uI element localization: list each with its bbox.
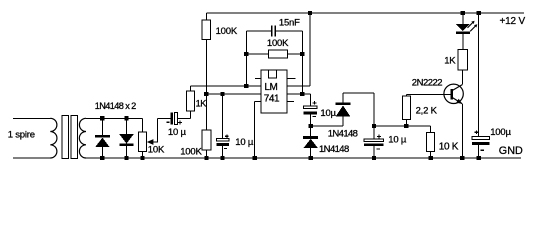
svg-text:1K: 1K <box>444 56 456 67</box>
node diode D2 top <box>124 116 128 120</box>
wire wiper to cap <box>156 118 158 142</box>
node D3 ground <box>309 156 313 160</box>
svg-text:10 µ: 10 µ <box>168 127 187 138</box>
diode D3 1N4148 <box>310 126 312 136</box>
wire primary bottom <box>13 157 50 159</box>
wire non-inverting input <box>206 93 261 95</box>
resistor R4 100K body <box>246 53 268 55</box>
node feedback right <box>300 52 304 56</box>
wire feedback right vertical <box>301 31 303 94</box>
node diode D2 bottom <box>124 156 128 160</box>
node output feedback <box>300 92 304 96</box>
svg-text:1 spire: 1 spire <box>8 130 35 141</box>
node C2 top <box>220 92 224 96</box>
transistor Q1 base bar <box>451 89 453 100</box>
node diode D1 bottom <box>100 156 104 160</box>
wire primary top <box>13 117 50 119</box>
node diode D1 top <box>100 116 104 120</box>
pin 5 stub <box>287 101 294 103</box>
node emitter ground <box>460 156 464 160</box>
potentiometer P1 wiper arrow <box>151 141 158 143</box>
potentiometer P1 body <box>139 132 147 152</box>
svg-text:10µ: 10µ <box>320 108 336 119</box>
LED arrows <box>468 22 474 28</box>
minus sign C6 <box>481 149 485 151</box>
svg-text:100K: 100K <box>267 38 289 49</box>
svg-text:10K: 10K <box>148 145 165 156</box>
svg-text:+12 V: +12 V <box>500 16 526 27</box>
diode D2 (down) <box>126 118 128 134</box>
svg-text:741: 741 <box>264 94 280 105</box>
svg-text:10 µ: 10 µ <box>235 137 254 148</box>
node R3 bottom <box>204 156 208 160</box>
node C6 ground <box>477 156 481 160</box>
node LED rail <box>461 11 465 15</box>
svg-text:1N4148 x 2: 1N4148 x 2 <box>95 101 136 111</box>
node 2.2K bottom <box>404 124 408 128</box>
pin 8 stub <box>287 78 295 80</box>
wire feedback left vertical <box>245 31 247 86</box>
capacitor C4 10u <box>303 106 317 109</box>
diode D4 1N4148 <box>342 116 344 126</box>
svg-text:10 K: 10 K <box>439 142 459 153</box>
+12V rail <box>206 12 524 14</box>
transistor Q1 circle <box>444 84 463 103</box>
wire D4 to node B <box>343 92 374 94</box>
wire pot bottom lead <box>142 152 144 159</box>
wire C4 to node A <box>310 114 312 126</box>
plus sign C1 <box>178 121 182 123</box>
node R6 ground <box>428 156 432 160</box>
capacitor C5 10u <box>373 126 375 139</box>
wire C1 to R1 <box>177 117 190 119</box>
node feedback at inverting input <box>244 84 248 88</box>
transistor Q1 emitter <box>453 98 463 104</box>
svg-text:2,2 K: 2,2 K <box>416 105 438 116</box>
ground rail <box>86 157 521 159</box>
wire divider vertical <box>205 40 207 131</box>
diode D1 (up) <box>101 118 103 137</box>
pin 1 stub <box>255 78 261 80</box>
node pot bottom <box>140 156 144 160</box>
transformer T1 primary winding <box>50 118 57 158</box>
svg-text:1K: 1K <box>196 98 208 108</box>
transformer T1 core <box>62 116 68 159</box>
wire pot top lead <box>142 118 144 132</box>
wire R1 to inverting input <box>189 86 191 91</box>
svg-text:100K: 100K <box>180 146 202 157</box>
wire R7 to collector <box>462 70 464 85</box>
plus sign C4 <box>313 102 317 104</box>
transformer T1 secondary winding <box>79 118 86 158</box>
wire node B to 10K <box>374 125 431 127</box>
wire base line <box>405 94 407 96</box>
op-amp U1 body <box>261 70 287 113</box>
transistor Q1 collector <box>453 85 463 91</box>
node pin4 ground <box>252 156 256 160</box>
node B <box>372 124 376 128</box>
capacitor C6 100u <box>478 13 480 137</box>
svg-text:2N2222: 2N2222 <box>412 77 442 88</box>
pin 7 V+ lead <box>287 85 310 87</box>
capacitor C1 10u <box>170 113 173 125</box>
svg-text:GND: GND <box>499 145 523 157</box>
wire node A to D4 <box>311 125 343 127</box>
pin 4 ground lead <box>255 101 261 103</box>
minus sign C2 <box>224 148 227 150</box>
node C2 bottom <box>220 156 224 160</box>
svg-text:1N4148: 1N4148 <box>319 144 349 155</box>
capacitor C3 15nF <box>246 30 271 32</box>
svg-text:100K: 100K <box>216 26 238 37</box>
node 100u rail <box>477 11 481 15</box>
plus sign C5 <box>377 135 381 137</box>
plus sign C6 <box>475 131 479 133</box>
resistor R7 1K body <box>458 50 467 71</box>
svg-text:15nF: 15nF <box>279 18 300 29</box>
resistor R5 2.2K body <box>402 96 410 120</box>
wire output <box>287 93 311 95</box>
plus sign C2 <box>225 135 229 137</box>
node V+ rail <box>308 11 312 15</box>
LED D5 <box>462 13 464 24</box>
resistor R6 10K body <box>427 133 435 152</box>
svg-text:LM: LM <box>264 82 277 93</box>
resistor R3 100K body <box>202 130 211 150</box>
resistor R1 1K body <box>186 91 194 111</box>
node feedback left <box>244 52 248 56</box>
svg-text:10 µ: 10 µ <box>388 135 407 146</box>
svg-text:1N4148: 1N4148 <box>328 129 358 140</box>
node C5 ground <box>372 156 376 160</box>
minus sign C1 <box>167 121 170 123</box>
resistor R2 100K body <box>202 20 211 40</box>
capacitor C2 10u <box>222 94 224 139</box>
node divider mid <box>204 92 208 96</box>
node A <box>309 124 313 128</box>
minus sign C4 <box>313 116 316 118</box>
minus sign C5 <box>377 148 380 150</box>
svg-text:100µ: 100µ <box>490 127 511 138</box>
wire secondary top <box>86 117 143 119</box>
